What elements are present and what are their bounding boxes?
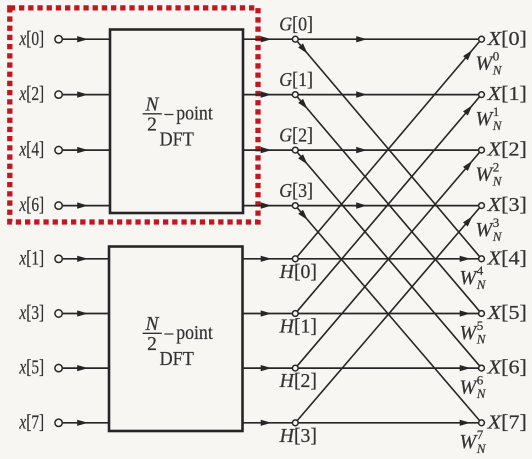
diagonal wire G[1] to X[5] (297, 97, 479, 311)
svg-text:H[3]: H[3] (279, 426, 317, 447)
svg-text:N: N (492, 62, 503, 77)
wire DFT output to node H[3] (243, 422, 293, 424)
output node X[6] (479, 365, 485, 371)
end arrowhead on H[2] wire (460, 365, 471, 371)
wire x[0] to DFT box (62, 38, 110, 40)
arrowhead into node H[3] (261, 420, 272, 426)
svg-text:x[1]: x[1] (19, 248, 45, 269)
svg-text:G[3]: G[3] (279, 181, 313, 202)
diagonal wire G[0] to X[4] (297, 42, 479, 257)
svg-text:N: N (476, 386, 487, 401)
svg-text:W: W (476, 53, 495, 75)
arrowhead on x[3] wire (77, 310, 88, 316)
arrowhead on H[0] diagonal near X[0] (463, 50, 472, 60)
output node X[4] (479, 256, 485, 262)
svg-text:6: 6 (477, 372, 484, 387)
red dotted highlight box around upper DFT stage (10, 8, 258, 222)
svg-text:X[4]: X[4] (486, 248, 526, 269)
svg-text:x[5]: x[5] (19, 358, 45, 379)
wire node G[2] to X[2] (298, 149, 478, 151)
svg-text:X[7]: X[7] (486, 412, 526, 433)
wire node H[1] to X[5] (298, 313, 478, 315)
wire DFT output to node H[2] (243, 367, 293, 369)
svg-text:N: N (476, 277, 487, 292)
arrowhead on x[1] wire (77, 256, 88, 262)
input terminal circle x[5] (55, 364, 62, 371)
wire DFT output to node H[1] (243, 313, 293, 315)
top N/2-point DFT box (110, 30, 243, 214)
wire x[7] to DFT box (62, 422, 109, 424)
svg-text:DFT: DFT (160, 349, 194, 370)
diagonal wire H[0] to X[0] (297, 42, 479, 257)
svg-text:X[3]: X[3] (486, 195, 526, 216)
wire node H[3] to X[7] (298, 422, 478, 424)
svg-text:x[6]: x[6] (19, 195, 45, 216)
end arrowhead on H[3] wire (460, 420, 471, 426)
svg-text:H[0]: H[0] (279, 262, 317, 283)
arrowhead into node G[1] (261, 91, 272, 97)
wire node G[1] to X[1] (298, 94, 478, 96)
svg-text:H[1]: H[1] (279, 317, 317, 338)
svg-text:x[4]: x[4] (19, 140, 45, 161)
input terminal circle x[0] (55, 36, 62, 43)
svg-text:W: W (460, 376, 479, 398)
arrowhead on x[2] wire (77, 91, 88, 97)
svg-text:X[1]: X[1] (486, 84, 526, 105)
mid arrowhead on G[0] wire (356, 36, 367, 42)
arrowhead into node G[3] (261, 202, 272, 208)
input terminal circle x[4] (55, 146, 62, 153)
wire DFT output to node G[3] (243, 205, 292, 207)
mid arrowhead on G[2] wire (356, 147, 367, 153)
wire x[2] to DFT box (62, 94, 110, 96)
node G[1] (292, 92, 298, 98)
arrowhead into node G[2] (261, 147, 272, 153)
diagonal wire G[2] to X[6] (297, 152, 479, 365)
arrowhead on x[6] wire (77, 202, 88, 208)
svg-text:N: N (476, 332, 487, 347)
svg-text:x[0]: x[0] (19, 29, 45, 50)
svg-text:X[6]: X[6] (486, 358, 526, 379)
node G[0] (292, 36, 298, 42)
wire x[6] to DFT box (62, 205, 110, 207)
svg-text:point: point (176, 102, 213, 124)
arrowhead into node H[1] (261, 310, 272, 316)
svg-text:N: N (492, 229, 503, 244)
arrowhead on G[2] diagonal (298, 154, 307, 164)
wire DFT output to node G[1] (243, 94, 292, 96)
node H[0] (292, 256, 298, 262)
arrowhead into node H[0] (261, 256, 272, 262)
arrowhead into node H[2] (261, 365, 272, 371)
wire node G[0] to X[0] (298, 38, 478, 40)
svg-text:5: 5 (477, 318, 484, 333)
output node X[3] (479, 203, 485, 209)
diagonal wire G[3] to X[7] (297, 208, 479, 421)
wire DFT output to node G[2] (243, 149, 292, 151)
svg-text:N: N (144, 314, 159, 335)
end arrowhead on H[0] wire (460, 256, 471, 262)
svg-text:3: 3 (493, 215, 500, 230)
input terminal circle x[2] (55, 91, 62, 98)
arrowhead on H[3] diagonal near X[3] (463, 216, 472, 226)
svg-text:W: W (476, 219, 495, 241)
end arrowhead on H[1] wire (460, 310, 471, 316)
wire x[5] to DFT box (62, 367, 109, 369)
svg-text:1: 1 (493, 104, 500, 119)
svg-text:N: N (492, 173, 503, 188)
svg-text:X[2]: X[2] (486, 140, 526, 161)
bottom N/2-point DFT box (109, 247, 243, 432)
arrowhead on G[1] diagonal (298, 99, 307, 109)
svg-text:N: N (492, 118, 503, 133)
svg-text:G[1]: G[1] (279, 70, 313, 91)
svg-text:W: W (460, 267, 479, 289)
wire DFT output to node H[0] (243, 258, 293, 260)
input terminal circle x[7] (55, 419, 62, 426)
svg-text:N: N (476, 441, 487, 456)
node G[3] (292, 203, 298, 209)
svg-text:x[3]: x[3] (19, 303, 45, 324)
output node X[5] (479, 311, 485, 317)
input terminal circle x[3] (55, 310, 62, 317)
output node X[1] (479, 92, 485, 98)
svg-text:W: W (460, 322, 479, 344)
wire x[3] to DFT box (62, 313, 109, 315)
mid arrowhead on G[1] wire (356, 91, 367, 97)
svg-text:G[2]: G[2] (279, 125, 313, 146)
svg-text:2: 2 (493, 160, 500, 175)
arrowhead on x[7] wire (77, 420, 88, 426)
arrowhead on x[4] wire (77, 147, 88, 153)
arrowhead on G[3] diagonal (298, 210, 308, 220)
wire node H[2] to X[6] (298, 367, 478, 369)
svg-text:–: – (164, 102, 174, 124)
svg-text:2: 2 (147, 115, 157, 136)
arrowhead on x[0] wire (77, 36, 88, 42)
arrowhead into node G[0] (261, 36, 272, 42)
arrowhead on x[5] wire (77, 365, 88, 371)
svg-text:x[7]: x[7] (19, 412, 45, 433)
arrowhead on G[0] diagonal (298, 43, 307, 53)
arrowhead on H[2] diagonal near X[2] (463, 161, 472, 171)
svg-text:2: 2 (147, 334, 157, 355)
output node X[7] (479, 420, 485, 426)
node H[2] (292, 365, 298, 371)
input terminal circle x[6] (55, 202, 62, 209)
svg-text:H[2]: H[2] (279, 371, 317, 392)
output node X[0] (479, 36, 485, 42)
node G[2] (292, 147, 298, 153)
svg-text:4: 4 (477, 263, 484, 278)
wire x[4] to DFT box (62, 149, 110, 151)
diagonal wire H[2] to X[2] (297, 152, 479, 365)
diagonal wire H[1] to X[1] (297, 97, 479, 311)
mid arrowhead on G[3] wire (356, 202, 367, 208)
diagonal wire H[3] to X[3] (297, 208, 479, 421)
svg-text:X[0]: X[0] (486, 29, 526, 50)
output node X[2] (479, 147, 485, 153)
wire node G[3] to X[3] (298, 205, 478, 207)
svg-text:DFT: DFT (160, 130, 194, 151)
svg-text:point: point (176, 322, 213, 344)
wire node H[0] to X[4] (298, 258, 478, 260)
svg-text:X[5]: X[5] (486, 303, 526, 324)
svg-text:W: W (460, 431, 479, 453)
svg-text:N: N (144, 95, 159, 116)
svg-text:–: – (164, 321, 174, 343)
wire DFT output to node G[0] (243, 38, 292, 40)
svg-text:0: 0 (493, 49, 500, 64)
arrowhead on H[1] diagonal near X[1] (463, 105, 472, 115)
svg-text:7: 7 (477, 427, 484, 442)
input terminal circle x[1] (55, 255, 62, 262)
svg-text:G[0]: G[0] (279, 14, 313, 35)
svg-text:W: W (476, 164, 495, 186)
svg-text:W: W (476, 108, 495, 130)
wire x[1] to DFT box (62, 258, 109, 260)
svg-text:x[2]: x[2] (19, 84, 45, 105)
node H[1] (292, 311, 298, 317)
node H[3] (292, 420, 298, 426)
